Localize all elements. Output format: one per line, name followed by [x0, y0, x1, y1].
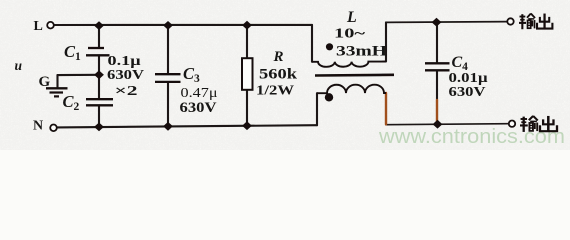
svg-text:L: L [34, 19, 43, 34]
svg-text:630V: 630V [180, 100, 218, 116]
svg-text:630V: 630V [107, 68, 144, 83]
svg-text:G: G [39, 74, 51, 90]
svg-text:0.47μ: 0.47μ [181, 86, 218, 101]
svg-text:N: N [33, 119, 43, 134]
svg-text:u: u [15, 58, 23, 73]
svg-text:×2: ×2 [115, 84, 138, 99]
svg-text:0.01μ: 0.01μ [449, 71, 488, 86]
svg-text:L: L [346, 9, 357, 26]
svg-text:1/2W: 1/2W [256, 84, 294, 99]
svg-text:630V: 630V [449, 85, 486, 100]
svg-text:33mH: 33mH [336, 44, 388, 60]
svg-text:10~: 10~ [334, 27, 366, 42]
svg-text:0.1μ: 0.1μ [108, 54, 141, 69]
svg-text:R: R [273, 49, 284, 65]
svg-text:560k: 560k [259, 67, 298, 83]
